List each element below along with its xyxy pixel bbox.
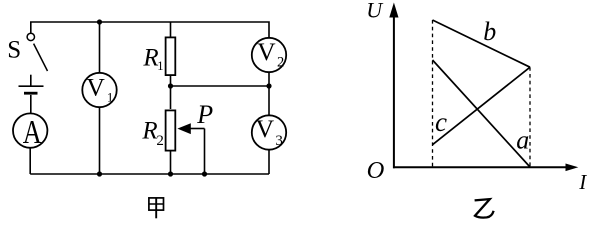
wire V3 top lead [268,86,270,115]
voltmeter V2 [252,37,286,72]
wire V1 top lead [99,22,101,73]
curve b [433,20,531,67]
wiper arrow P of R2 [177,123,204,174]
svg-text:3: 3 [275,133,283,149]
label yi (caption of graph) [475,199,494,217]
svg-text:2: 2 [156,133,164,149]
label jia (caption of circuit) [149,198,164,218]
node junction middle rail right [266,83,271,88]
svg-text:V: V [86,73,105,102]
node top junction above V1 [97,19,102,24]
wire R2 bottom lead [170,151,172,174]
svg-text:a: a [516,126,529,155]
wire top rail [31,22,269,38]
dashed guide line left [432,20,434,168]
svg-text:c: c [435,107,447,137]
svg-text:S: S [7,36,21,63]
svg-text:b: b [483,17,496,46]
voltmeter V1 [82,73,116,108]
svg-text:V: V [256,114,275,143]
battery [19,75,44,114]
wire A bottom lead [29,148,31,174]
wire V3 bottom lead [268,150,270,174]
svg-text:O: O [367,157,385,184]
node junction R1/R2 with middle rail [168,83,173,88]
svg-text:V: V [257,37,276,66]
wire bottom rail [30,173,269,175]
wire R1 top lead [170,22,172,37]
ammeter A [13,113,47,151]
switch S [27,33,47,71]
wire V2 bottom lead [268,72,270,86]
wire V1 bottom lead [99,107,101,174]
resistor R2 (rheostat) [166,110,176,150]
dashed guide line right [529,67,531,167]
node bottom junction below V1 [97,171,102,176]
graph y-axis (U) [389,3,398,169]
svg-text:U: U [366,0,384,22]
graph x-axis (I) [393,164,578,172]
svg-text:A: A [23,114,42,151]
svg-text:1: 1 [157,59,163,73]
curve a [433,60,531,167]
wire R1 to R2 link [170,76,172,109]
wire middle rail [171,85,270,87]
svg-text:P: P [196,100,213,129]
svg-text:1: 1 [107,90,114,105]
svg-text:I: I [578,170,587,194]
svg-text:R: R [141,117,157,144]
voltmeter V3 [252,114,286,150]
curve c [433,67,531,145]
node bottom junction below R2 [168,171,173,176]
resistor R1 [166,37,176,75]
node bottom junction of wiper [202,171,207,176]
svg-text:2: 2 [277,54,284,70]
